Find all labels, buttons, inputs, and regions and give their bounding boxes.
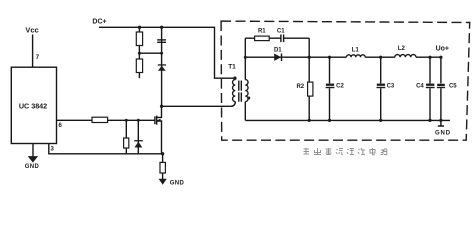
svg-text:L1: L1: [352, 48, 360, 54]
svg-text:UC 3842: UC 3842: [19, 102, 47, 111]
svg-text:Uo+: Uo+: [436, 45, 449, 52]
svg-text:Vcc: Vcc: [25, 26, 38, 35]
svg-text:T1: T1: [228, 64, 236, 71]
svg-text:7: 7: [36, 55, 40, 61]
svg-text:6: 6: [59, 123, 63, 129]
svg-text:C5: C5: [449, 84, 457, 90]
svg-text:C1: C1: [277, 28, 285, 34]
svg-text:C2: C2: [336, 84, 344, 90]
svg-text:GND: GND: [435, 131, 451, 137]
svg-text:R2: R2: [296, 84, 304, 90]
svg-text:L2: L2: [398, 46, 406, 52]
svg-text:3: 3: [51, 147, 55, 153]
svg-text:C4: C4: [416, 84, 424, 90]
svg-text:C3: C3: [387, 84, 395, 90]
svg-text:GND: GND: [170, 180, 185, 186]
svg-text:R1: R1: [258, 28, 266, 34]
svg-text:D1: D1: [274, 48, 282, 54]
svg-text:DC+: DC+: [92, 19, 106, 26]
svg-text:GND: GND: [25, 164, 40, 170]
